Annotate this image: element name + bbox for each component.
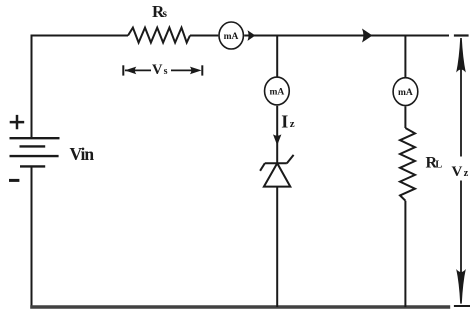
svg-text:V: V (452, 164, 463, 180)
svg-text:mA: mA (398, 88, 413, 98)
svg-text:s: s (163, 8, 168, 20)
svg-text:z: z (290, 118, 295, 130)
svg-text:z: z (464, 168, 469, 179)
svg-text:I: I (281, 112, 288, 132)
svg-text:mA: mA (270, 88, 285, 98)
svg-text:mA: mA (224, 32, 239, 42)
svg-text:L: L (435, 159, 442, 170)
svg-text:Vin: Vin (70, 144, 95, 164)
svg-text:s: s (164, 66, 168, 77)
svg-text:V: V (152, 62, 163, 78)
